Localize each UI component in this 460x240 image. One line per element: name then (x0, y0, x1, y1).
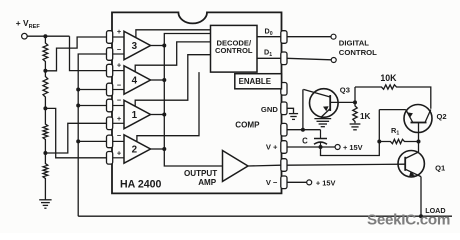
wire Q1 emitter to load (420, 177, 422, 217)
svg-text:CONTROL: CONTROL (215, 46, 253, 55)
wire COMP (287, 129, 321, 131)
svg-text:V −: V − (266, 178, 278, 187)
svg-text:SeekIC.com: SeekIC.com (367, 212, 450, 229)
wire V- pin (287, 181, 307, 183)
op-amp 1 (124, 100, 151, 128)
node feedback op1 - (76, 104, 80, 108)
svg-text:HA 2400: HA 2400 (120, 179, 162, 191)
op-amp 2 (124, 135, 151, 163)
svg-text:DIGITAL: DIGITAL (339, 39, 369, 48)
svg-text:+ 15V: + 15V (343, 143, 363, 152)
svg-text:Q1: Q1 (435, 164, 446, 173)
pin output (281, 159, 287, 172)
pin op4 - (107, 83, 113, 96)
node feedback op4 - (76, 88, 80, 92)
svg-text:+: + (117, 60, 122, 69)
pin op2 + (107, 152, 113, 165)
wire feedback to op4 - pin (78, 89, 106, 91)
wire op4 output (151, 79, 165, 81)
svg-text:−: − (117, 80, 122, 89)
node Q3 base (353, 100, 357, 104)
wire load return (bottom) (78, 215, 452, 217)
svg-text:3: 3 (132, 41, 138, 52)
wire op2 control to decode (137, 72, 199, 142)
node R1 left (377, 140, 381, 144)
pin COMP (281, 123, 287, 136)
wire op2 output (151, 148, 165, 150)
wire tap1 to op3 + pin (45, 37, 106, 71)
node bus op3 (162, 44, 166, 48)
svg-text:COMP: COMP (235, 120, 260, 129)
transistor Q3 (310, 89, 339, 118)
pin op3 - (107, 48, 113, 61)
decode/control block U-DEC (211, 25, 258, 72)
pin GND (281, 102, 287, 115)
wire Q2 emitter (379, 109, 406, 111)
svg-text:CONTROL: CONTROL (339, 48, 377, 57)
svg-text:+: + (117, 149, 122, 158)
svg-text:−: − (117, 45, 122, 54)
wire output bus (164, 34, 222, 167)
enable block (235, 74, 282, 89)
resistor 1K (353, 102, 357, 123)
svg-text:GND: GND (261, 105, 278, 114)
svg-text:+: + (117, 27, 122, 36)
svg-text:−: − (117, 131, 122, 140)
node bus op2 (162, 147, 166, 151)
node bus op4 (162, 78, 166, 82)
wire Q2 base down (418, 123, 420, 153)
resistor R1 (379, 139, 418, 143)
svg-text:10K: 10K (380, 73, 397, 83)
svg-text:+: + (117, 114, 122, 123)
wire R1 node to V+ (321, 142, 380, 156)
wire op3 control to decode (136, 30, 211, 38)
wire V+ pin (287, 146, 335, 148)
wire GND pin (287, 108, 294, 113)
svg-text:1: 1 (132, 110, 138, 121)
terminal D1 (331, 58, 336, 63)
resistor ladder R-a (43, 36, 48, 71)
svg-text:ENABLE: ENABLE (239, 77, 271, 86)
wire D0 to terminal (287, 36, 331, 38)
wire Q2 emitter to R1 node (378, 110, 380, 142)
node Q2 base R1 (417, 140, 421, 144)
terminal V- 15V (307, 180, 312, 185)
node tap3 (43, 151, 47, 155)
wire feedback to op1 - pin (78, 105, 106, 107)
ground ladder bottom (39, 199, 51, 201)
pin op1 - (107, 99, 113, 112)
svg-text:−: − (117, 95, 122, 104)
transistor Q1 (398, 151, 424, 177)
+VREF input terminal (22, 33, 28, 39)
wire op1 output (151, 114, 165, 116)
ground Q3 emitter (314, 118, 331, 120)
wire VREF to op4 + pin (70, 36, 107, 70)
node V+ C (319, 145, 323, 149)
pin V- (281, 176, 287, 189)
node load (419, 214, 423, 218)
pin op2 - (107, 135, 113, 148)
pin ENABLE (281, 83, 287, 96)
wire Q3 emitter to ground (321, 117, 323, 119)
terminal V+ 15V (335, 145, 340, 150)
pin op1 + (107, 117, 113, 130)
node bus op1 (162, 113, 166, 117)
resistor ladder R-c (43, 108, 48, 153)
resistor ladder R-d (43, 153, 48, 200)
pin V+ (281, 141, 287, 154)
resistor ladder R-b (43, 71, 48, 109)
pin D0 (281, 31, 287, 44)
wire op3 output (151, 45, 165, 47)
node COMP Q3 (301, 128, 305, 132)
node feedback op2 - (76, 139, 80, 143)
ground 1K (350, 123, 361, 125)
IC HA2400 outline (112, 12, 282, 193)
capacitor C (320, 130, 322, 139)
pin D1 (281, 52, 287, 65)
svg-text:4: 4 (132, 75, 138, 86)
wire op4 control to decode (135, 42, 210, 72)
transistor Q2 (404, 105, 432, 133)
op-amp output amp (223, 151, 249, 182)
svg-text:C: C (302, 136, 308, 145)
node VREF ladder top (43, 34, 47, 38)
wire output amp to pin (248, 164, 281, 167)
wire feedback to op2 - pin (78, 140, 106, 142)
pin op4 + (107, 64, 113, 77)
wire output to Q1 base (287, 164, 405, 165)
svg-text:V +: V + (266, 143, 278, 152)
feedback bus wire (78, 54, 106, 216)
wire tap3 to op1 + pin (45, 123, 106, 153)
terminal D0 (331, 34, 336, 39)
op-amp 4 (124, 66, 151, 94)
ground GND pin (289, 113, 298, 115)
svg-text:1K: 1K (360, 112, 371, 121)
op-amp 3 (124, 31, 151, 59)
node tap2 (43, 106, 47, 110)
wire 10K (354, 87, 356, 102)
wire VREF terminal to ladder top (27, 35, 69, 37)
wire tap2 to op2 + pin (45, 108, 106, 157)
svg-text:Q2: Q2 (437, 112, 447, 121)
svg-text:2: 2 (132, 144, 138, 155)
wire decode to D1 pin (257, 57, 281, 59)
svg-text:+ 15V: + 15V (316, 179, 336, 188)
node tap1 (43, 69, 47, 73)
wire op1 control to decode (135, 55, 210, 107)
pin op3 + (107, 31, 113, 44)
wire Q3 collector to COMP (302, 89, 304, 129)
svg-text:Q3: Q3 (340, 86, 350, 95)
resistor 10K (355, 85, 431, 109)
wire Q3 base (330, 101, 355, 103)
wire D1 to terminal (287, 58, 331, 60)
wire decode to D0 pin (257, 36, 281, 38)
svg-text:AMP: AMP (198, 178, 217, 187)
